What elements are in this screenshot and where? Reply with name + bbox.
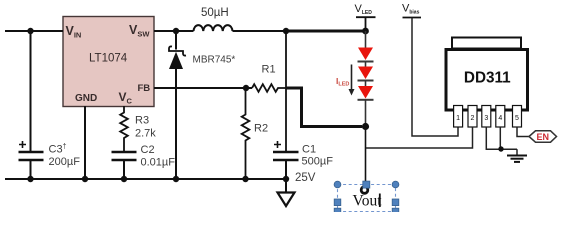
pin 2 bbox=[468, 106, 477, 128]
svg-text:500µF: 500µF bbox=[302, 156, 334, 168]
svg-text:0.01µF: 0.01µF bbox=[141, 157, 176, 169]
node C2 ground junction bbox=[121, 176, 127, 182]
svg-text:1: 1 bbox=[456, 115, 460, 122]
svg-text:EN: EN bbox=[537, 132, 550, 142]
wire ground rail bbox=[5, 178, 289, 180]
flag EN bbox=[529, 131, 557, 142]
handle bottom-left square bbox=[334, 208, 341, 215]
ground symbol (triangle) bbox=[278, 179, 295, 206]
svg-text:DD311: DD311 bbox=[464, 70, 511, 87]
node VSW junction bbox=[173, 28, 179, 34]
ground symbol (bars) bbox=[507, 149, 527, 162]
wire pin5 to EN bbox=[517, 127, 529, 137]
wire thick R1 to LED cathode node bbox=[286, 88, 362, 127]
resistor R1 bbox=[252, 64, 286, 92]
LED string D2 D3 D4 bbox=[358, 31, 374, 127]
svg-text:4: 4 bbox=[498, 115, 502, 122]
handle mid-right square bbox=[392, 199, 399, 206]
pin 1 bbox=[454, 106, 463, 128]
svg-text:R3: R3 bbox=[135, 115, 149, 127]
capacitor C1 bbox=[273, 141, 333, 184]
resistor R2 bbox=[242, 88, 268, 179]
svg-text:C2: C2 bbox=[141, 144, 155, 156]
selection box around Vout text bbox=[334, 181, 399, 215]
svg-text:R2: R2 bbox=[254, 123, 268, 135]
capacitor C2 bbox=[112, 144, 176, 169]
svg-text:2.7k: 2.7k bbox=[135, 128, 156, 140]
handle mid-left square bbox=[334, 199, 341, 206]
wire LED node down to Vout terminal bbox=[365, 127, 367, 188]
label ILED current bbox=[336, 65, 355, 96]
node pin4 junction bbox=[498, 146, 503, 151]
wire pin3 to ground bbox=[486, 127, 517, 149]
wire Vbias to pin1 bbox=[412, 18, 458, 136]
svg-text:C1: C1 bbox=[302, 144, 316, 156]
text cursor bbox=[379, 194, 381, 208]
body bbox=[446, 50, 528, 111]
handle top-left circle bbox=[334, 181, 341, 188]
diode D1 MBR745 (schottky) bbox=[169, 31, 235, 179]
wire C3 branch bbox=[30, 31, 32, 179]
svg-text:2: 2 bbox=[471, 115, 475, 122]
wire VIN input bbox=[5, 30, 63, 32]
regulator U1 LT1074 bbox=[63, 17, 154, 107]
terminal Vout circle bbox=[361, 187, 368, 194]
svg-text:3: 3 bbox=[484, 115, 488, 122]
node input junction bbox=[27, 28, 33, 34]
wire pin2 to LED node line bbox=[366, 127, 473, 148]
svg-text:25V: 25V bbox=[295, 172, 316, 184]
pin 3 bbox=[482, 106, 491, 128]
LED D2 bbox=[358, 48, 373, 61]
LED D3 bbox=[358, 67, 373, 80]
pin 5 bbox=[513, 106, 522, 128]
svg-text:R1: R1 bbox=[262, 64, 276, 76]
pin 4 bbox=[496, 106, 505, 128]
svg-text:GND: GND bbox=[75, 93, 97, 104]
node VLED junction bbox=[362, 28, 369, 35]
node GND junction bbox=[82, 176, 88, 182]
svg-text:LT1074: LT1074 bbox=[89, 53, 128, 65]
node C1 ground junction bbox=[283, 176, 289, 182]
resistor R3 bbox=[120, 106, 156, 152]
svg-text:MBR745*: MBR745* bbox=[193, 55, 236, 66]
node FB junction bbox=[243, 85, 249, 91]
svg-text:50µH: 50µH bbox=[201, 7, 229, 19]
LED D4 bbox=[358, 86, 373, 99]
svg-text:FB: FB bbox=[138, 83, 151, 94]
IC U2 DD311 package bbox=[446, 38, 528, 128]
svg-text:5: 5 bbox=[515, 115, 519, 122]
terminal VLED bbox=[355, 3, 376, 31]
handle top-right circle bbox=[392, 181, 399, 188]
node LED cathode junction bbox=[362, 123, 369, 130]
svg-text:200µF: 200µF bbox=[49, 156, 81, 168]
inductor L1 50uH bbox=[194, 7, 233, 31]
svg-text:Vout: Vout bbox=[353, 193, 383, 210]
tab bbox=[452, 38, 521, 49]
capacitor C3 bbox=[19, 141, 81, 168]
wire FB bbox=[154, 87, 252, 89]
wire VSW to inductor bbox=[154, 30, 194, 32]
wire inductor to LED node bbox=[233, 30, 287, 32]
node R2 ground junction bbox=[242, 176, 248, 182]
node output junction bbox=[283, 28, 289, 34]
node diode-ground junction bbox=[173, 176, 179, 182]
wire GND pin bbox=[84, 106, 86, 179]
handle top-center square bbox=[363, 181, 370, 188]
wire VLED to C1 bbox=[285, 31, 287, 152]
handle bottom-right square bbox=[392, 208, 399, 215]
node C3 ground junction bbox=[27, 176, 33, 182]
terminal Vbias bbox=[402, 3, 421, 18]
wire pin4 to ground wire bbox=[499, 127, 501, 149]
